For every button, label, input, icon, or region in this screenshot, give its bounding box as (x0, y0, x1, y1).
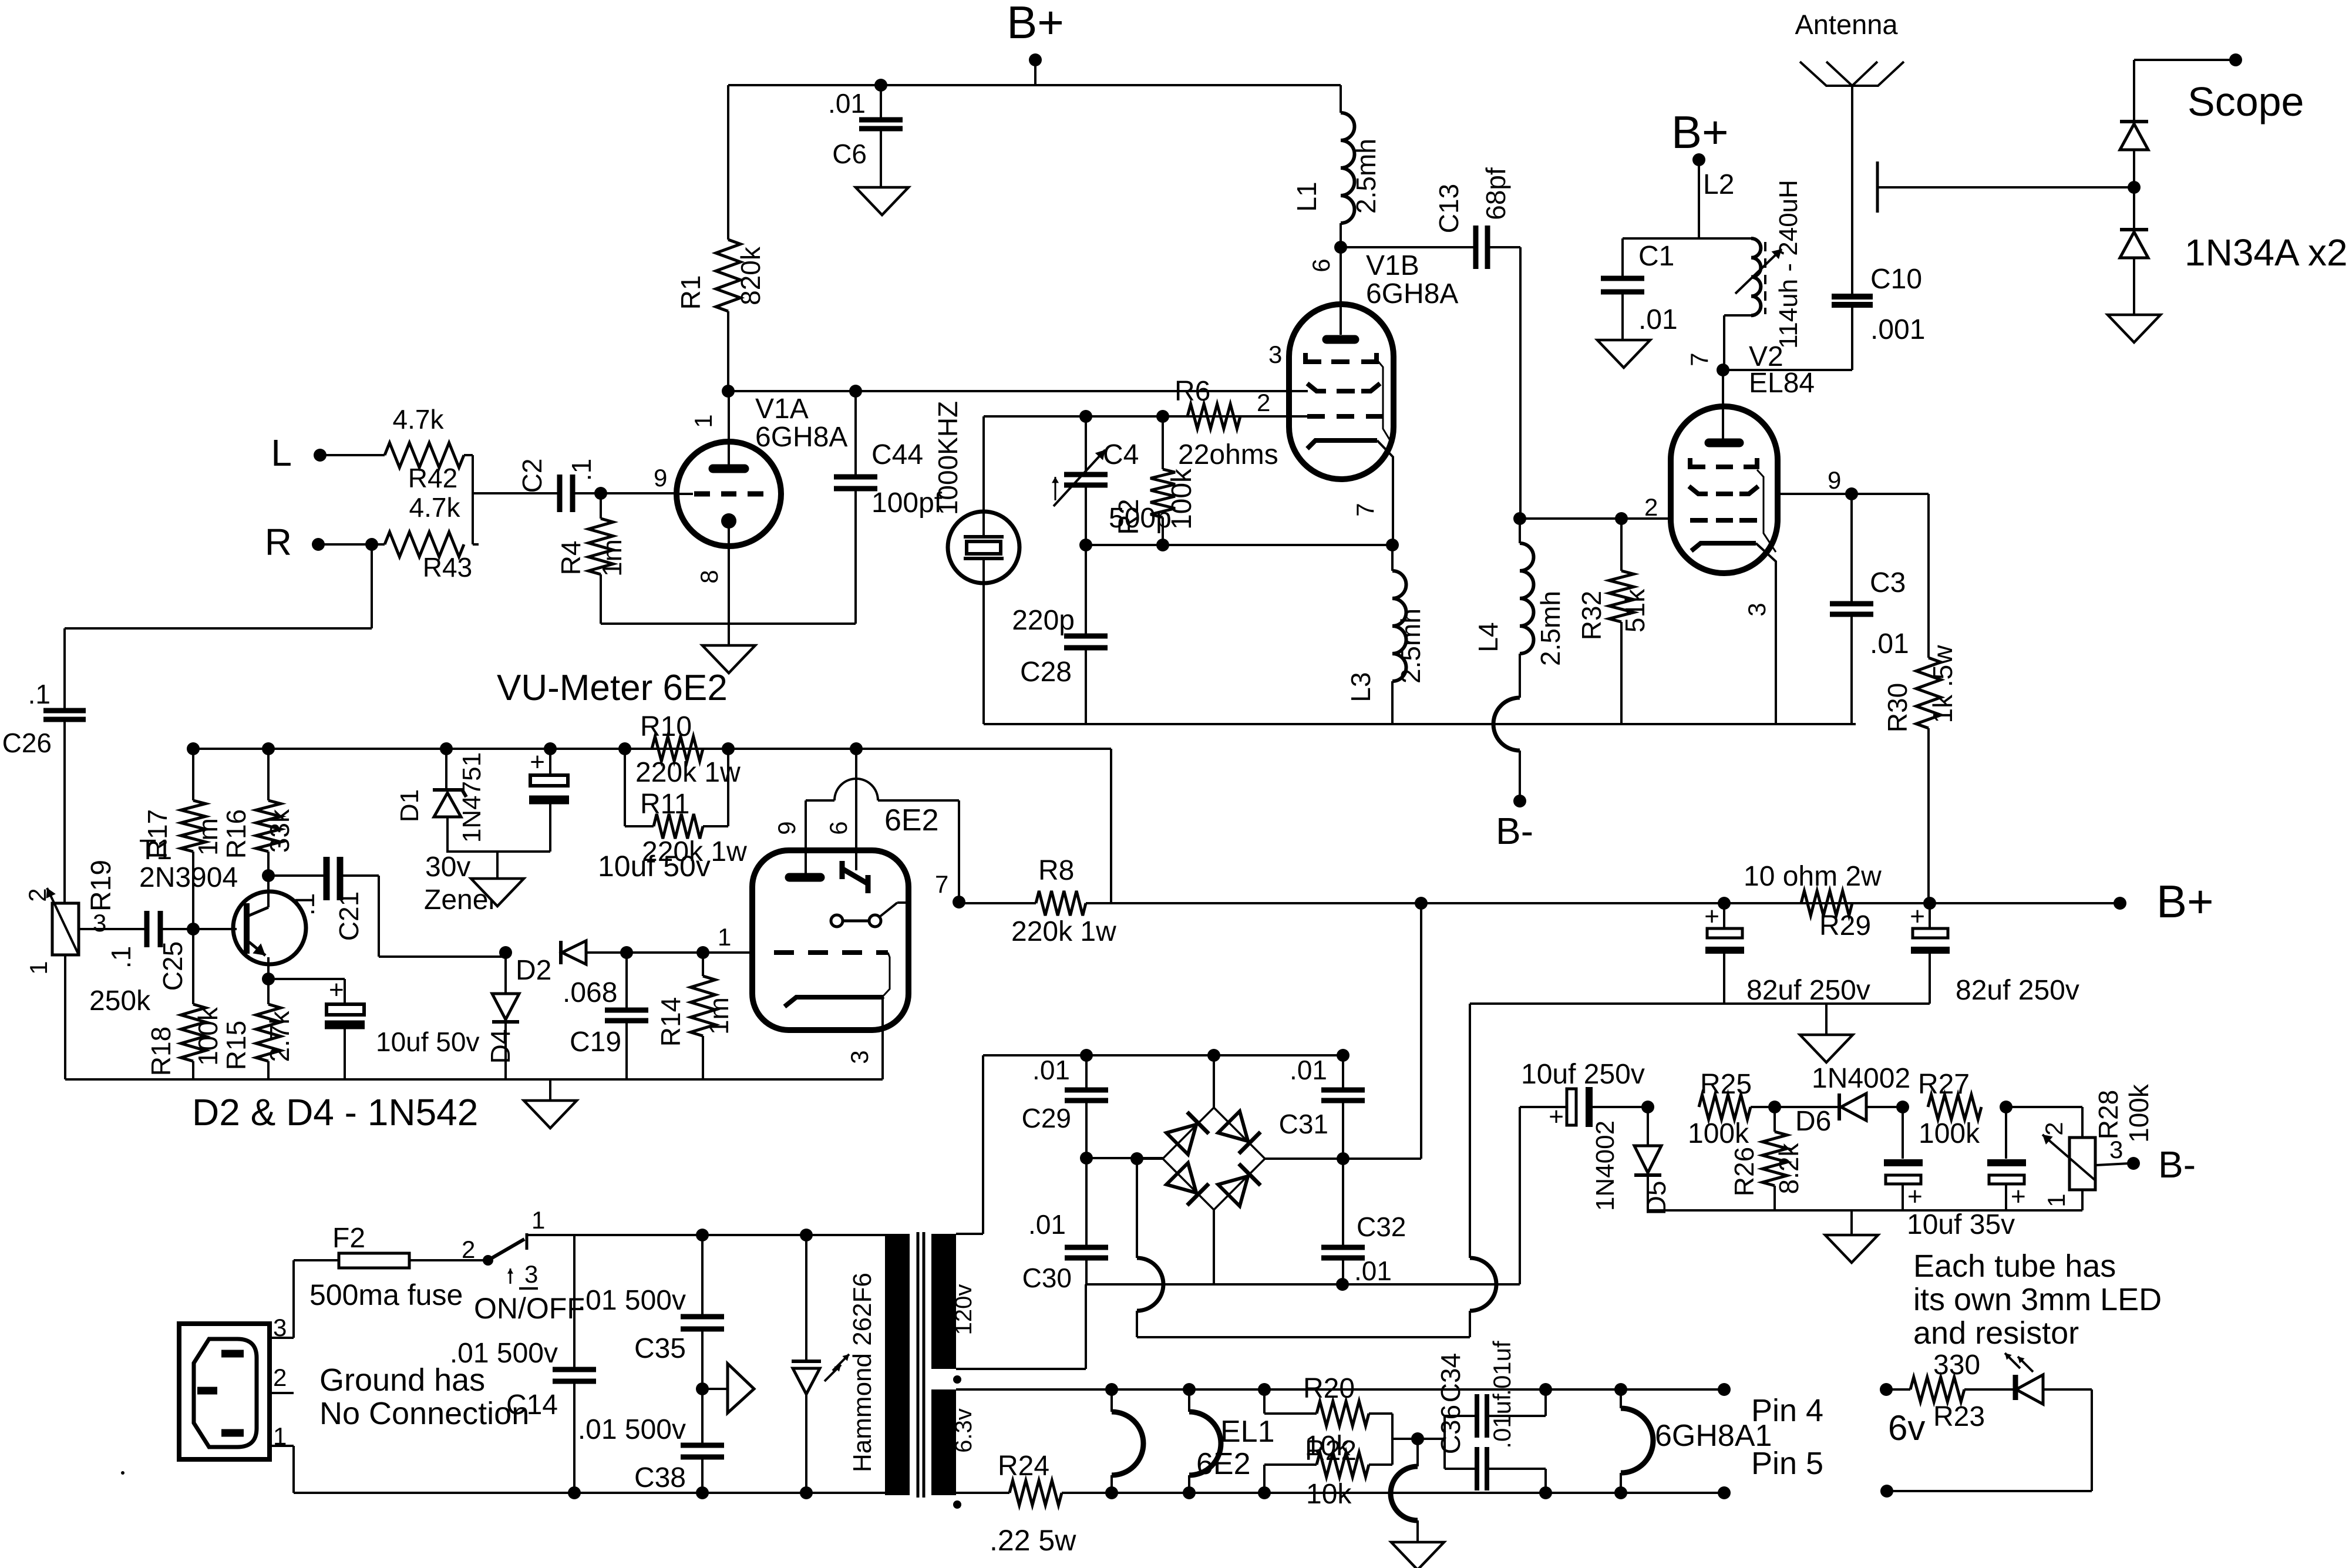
svg-text:4.7k: 4.7k (409, 492, 461, 523)
svg-text:9: 9 (773, 821, 800, 835)
wire C25 to base (160, 928, 237, 930)
diode LED2 3mm (1964, 1353, 2092, 1404)
svg-text:B+: B+ (2156, 876, 2214, 927)
wire R19 wiper (79, 928, 147, 930)
svg-text:2.5mh: 2.5mh (1535, 591, 1566, 666)
svg-text:3: 3 (1743, 603, 1771, 616)
capacitor C31 .01 (1279, 1055, 1365, 1159)
svg-text:1N4751: 1N4751 (457, 752, 486, 843)
capacitor C44 100pf (834, 391, 943, 624)
capacitor C26 .1 (2, 679, 86, 903)
diode D8 1N34A (lower) (2120, 187, 2348, 315)
svg-text:C1: C1 (1638, 241, 1674, 272)
svg-text:120v: 120v (951, 1284, 977, 1335)
svg-text:R18: R18 (146, 1027, 176, 1076)
svg-text:L: L (271, 432, 292, 474)
svg-text:500ma fuse: 500ma fuse (309, 1278, 463, 1311)
svg-text:10uf 35v: 10uf 35v (1907, 1209, 2015, 1240)
node C31/C32 mid (1337, 1152, 1350, 1165)
svg-text:R24: R24 (998, 1451, 1049, 1482)
node LED1 top (800, 1229, 813, 1241)
svg-text:8: 8 (695, 570, 723, 583)
node R2 bottom (1156, 539, 1169, 551)
transistor Q1 2N3904 (233, 876, 306, 979)
node C14 bottom (568, 1486, 581, 1499)
svg-text:R30: R30 (1882, 683, 1913, 732)
ground (B+ filter) (1800, 1004, 1853, 1062)
capacitor C6 .01 (828, 85, 903, 187)
wire inlet pin1 (270, 1422, 574, 1493)
node C35/C38 mid chassis arrow (696, 1364, 754, 1413)
node 6E2 heater top (1105, 1383, 1118, 1396)
svg-text:6E2: 6E2 (1196, 1447, 1251, 1481)
svg-text:2.5mh: 2.5mh (1351, 139, 1381, 214)
resistor R23 330 (1886, 1350, 1985, 1432)
svg-text:22ohms: 22ohms (1178, 439, 1278, 470)
svg-text:R29: R29 (1819, 910, 1871, 941)
capacitor C38 .01 500v (578, 1389, 724, 1493)
wire VU bottom bus (65, 1078, 883, 1081)
svg-text:R20: R20 (1303, 1373, 1355, 1404)
svg-text:EL84: EL84 (1749, 368, 1815, 399)
svg-text:B+: B+ (1671, 106, 1729, 158)
svg-text:V1B: V1B (1366, 250, 1419, 281)
svg-text:.01 500v: .01 500v (450, 1338, 558, 1369)
svg-text:R1: R1 (675, 275, 706, 310)
wire switch to transformer (572, 1234, 885, 1236)
svg-text:9: 9 (654, 464, 667, 492)
node heater rail ends (1718, 1383, 1731, 1499)
node input L (271, 432, 385, 474)
diode D2 1N542 (516, 941, 627, 986)
svg-text:C25: C25 (157, 941, 188, 991)
node V1B pin7 junction (1386, 539, 1399, 551)
node EL1 heater top (1183, 1383, 1196, 1396)
svg-text:C38: C38 (634, 1462, 686, 1493)
resistor R22 10k (1264, 1431, 1392, 1510)
resistor R6 22ohms (1174, 376, 1308, 470)
node L1/C13 junction (1334, 241, 1347, 254)
capacitor C43 10uf 35v (left) (1884, 1107, 1923, 1211)
svg-text:10k: 10k (1306, 1479, 1352, 1510)
node B+ terminal (right) (2114, 876, 2214, 927)
wire 120v top to AC1 (956, 1055, 983, 1234)
svg-text:R6: R6 (1174, 376, 1210, 407)
inductor L3 2.5mh (1345, 545, 1426, 724)
node 6v terminal bottom (1880, 1485, 1893, 1498)
ground (zener) (471, 852, 524, 906)
node R14 top (696, 946, 709, 959)
svg-text:B-: B- (2158, 1143, 2196, 1186)
svg-text:7: 7 (935, 870, 948, 898)
svg-text:R: R (265, 521, 292, 563)
wire L1 to C13 (1341, 246, 1476, 248)
svg-text:7: 7 (1685, 352, 1713, 366)
diode LED1 power indicator (792, 1235, 849, 1493)
svg-text:Pin 4: Pin 4 (1751, 1393, 1823, 1428)
wire primary bottom (294, 1492, 885, 1494)
svg-text:7: 7 (1351, 503, 1379, 516)
wire VU top bus (193, 749, 1111, 903)
svg-text:82uf 250v: 82uf 250v (1956, 975, 2079, 1006)
wire 6.3v top rail (956, 1388, 1724, 1391)
svg-text:1000KHZ: 1000KHZ (933, 401, 963, 515)
label D2 D4 1N542 (192, 1091, 478, 1133)
node D2/D4 junction (499, 946, 512, 959)
label each tube note (1913, 1249, 2162, 1351)
svg-text:+: + (530, 748, 545, 776)
svg-text:+: + (2011, 1182, 2026, 1211)
svg-text:C2: C2 (517, 459, 547, 493)
svg-text:.1: .1 (106, 946, 136, 968)
node C35 top (696, 1229, 709, 1241)
diode D6 1N4002 (1775, 1063, 1910, 1137)
wire inlet pin3 to fuse (270, 1260, 339, 1341)
svg-text:820k: 820k (735, 246, 766, 305)
svg-text:30v: 30v (425, 852, 470, 883)
svg-text:C28: C28 (1020, 657, 1072, 688)
capacitor C2 .1 (517, 459, 597, 512)
svg-text:.001: .001 (1870, 314, 1925, 345)
svg-text:.01 500v: .01 500v (578, 1285, 686, 1316)
node B+ (oscillator) (1671, 106, 1729, 238)
wire C13 to L4 top (1488, 247, 1520, 519)
resistor R2 100k (1150, 416, 1197, 545)
capacitor C35 .01 500v (578, 1235, 724, 1389)
node D5 top (1641, 1101, 1654, 1113)
label 10uf 35v (1907, 1209, 2015, 1240)
svg-text:C19: C19 (570, 1027, 621, 1058)
crystal Y1 1000KHZ (933, 401, 1019, 724)
svg-text:6: 6 (824, 821, 852, 835)
svg-text:1: 1 (25, 961, 52, 974)
svg-text:C29: C29 (1022, 1103, 1071, 1133)
antenna (1795, 9, 1904, 294)
svg-text:4.7k: 4.7k (393, 404, 445, 435)
resistor R27 100k (1918, 1069, 1981, 1149)
node 6v terminal top (1880, 1383, 1925, 1448)
svg-text:D2: D2 (516, 955, 551, 986)
capacitor C28 220p (1012, 545, 1108, 724)
capacitor C29 .01 (1022, 1055, 1108, 1158)
svg-text:R23: R23 (1933, 1401, 1985, 1432)
capacitor C3 .01 (1830, 494, 1909, 724)
svg-text:.01: .01 (828, 88, 866, 119)
inductor L2 114uh-240uH variable (1735, 180, 1803, 349)
ground (below C1) (1597, 340, 1650, 368)
svg-text:6E2: 6E2 (884, 803, 939, 837)
svg-text:R22: R22 (1305, 1435, 1357, 1466)
ground (below V1A pin 8) (702, 624, 755, 673)
svg-text:6.3v: 6.3v (951, 1408, 977, 1453)
svg-text:C36: C36 (1435, 1405, 1466, 1454)
svg-text:R10: R10 (640, 711, 692, 742)
wire L2 bottom to V2 (1724, 315, 1751, 370)
svg-text:1N4002: 1N4002 (1812, 1063, 1910, 1094)
svg-text:D1: D1 (395, 789, 424, 822)
stray dot (121, 1471, 124, 1475)
capacitor C4 500p variable (1052, 416, 1172, 545)
svg-text:C44: C44 (871, 439, 923, 470)
label 30v zener (424, 852, 497, 916)
svg-text:R15: R15 (221, 1021, 251, 1070)
diode D1 1N4751 zener (395, 749, 486, 852)
svg-text:1: 1 (689, 414, 717, 428)
svg-text:R28: R28 (2093, 1090, 2123, 1139)
svg-text:8.2k: 8.2k (1773, 1143, 1804, 1194)
svg-text:R42: R42 (408, 463, 457, 493)
svg-text:33k: 33k (264, 809, 295, 853)
wire input join (464, 455, 560, 544)
resistor R24 .22 5w (990, 1451, 1076, 1557)
svg-text:D6: D6 (1795, 1106, 1831, 1137)
svg-text:R25: R25 (1700, 1069, 1752, 1100)
node C44 tap (849, 385, 862, 398)
svg-text:R27: R27 (1918, 1069, 1970, 1100)
wire main ground bus (1470, 1002, 1930, 1005)
wire LED loop (1887, 1389, 2092, 1491)
svg-text:100k: 100k (1919, 1118, 1980, 1149)
node R2/R6 top (1156, 410, 1169, 423)
svg-text:R11: R11 (640, 789, 690, 820)
capacitor C21 .1 (268, 857, 506, 957)
transformer T2 Hammond 262F6 (848, 1232, 977, 1509)
resistor R10 220k 1w (635, 711, 741, 788)
svg-text:.01: .01 (1870, 628, 1909, 659)
resistor R30 1k .5w (1882, 494, 1958, 903)
svg-text:L2: L2 (1703, 169, 1734, 200)
capacitor C25 .1 (106, 911, 188, 991)
node R10 left (618, 742, 631, 755)
svg-text:68pf: 68pf (1480, 167, 1511, 220)
svg-text:R16: R16 (221, 809, 251, 859)
svg-text:C3: C3 (1870, 567, 1906, 598)
svg-text:C30: C30 (1022, 1263, 1072, 1293)
node C3 tap (1778, 487, 1929, 500)
node C38 bottom (696, 1486, 709, 1499)
resistor R25 100k (1688, 1069, 1775, 1149)
svg-text:C26: C26 (2, 728, 52, 758)
capacitor C42 10uf 250v (1520, 1059, 1648, 1131)
svg-text:B-: B- (1496, 810, 1533, 852)
potentiometer R19 250k (23, 860, 151, 1079)
node heater mid junction (1411, 1432, 1424, 1445)
capacitor C34 .01uf (1435, 1341, 1546, 1439)
svg-text:.01uf: .01uf (1488, 1394, 1516, 1449)
svg-text:1k .5w: 1k .5w (1927, 645, 1958, 724)
svg-text:250k: 250k (89, 985, 151, 1017)
svg-text:EL1: EL1 (1220, 1415, 1275, 1449)
svg-text:2.7k: 2.7k (264, 1011, 295, 1062)
wire 6.3v bottom rail (956, 1492, 1724, 1494)
svg-text:Each tube has: Each tube has (1913, 1249, 2116, 1284)
svg-text:R43: R43 (423, 552, 472, 583)
wire L4 hop over bus (1493, 698, 1520, 751)
resistor R16 33k (221, 749, 295, 876)
node 6GH8A heater top (1614, 1383, 1627, 1396)
svg-text:330: 330 (1933, 1350, 1980, 1381)
potentiometer R28 100k (2006, 1084, 2154, 1210)
svg-text:2: 2 (2040, 1122, 2068, 1135)
svg-text:.01uf: .01uf (1488, 1341, 1516, 1396)
svg-text:+: + (1907, 1182, 1923, 1211)
capacitor C13 68pf (1433, 167, 1511, 269)
capacitor C30 .01 (1022, 1158, 1108, 1293)
wire B+ top bus (728, 84, 1341, 86)
wire B+ rail (1086, 902, 2120, 904)
svg-text:Pin 5: Pin 5 (1751, 1446, 1823, 1481)
label Pin4 (1751, 1393, 1823, 1428)
resistor R11 220k 1w (625, 749, 747, 867)
node base junction (187, 923, 200, 936)
svg-text:.1: .1 (566, 459, 597, 481)
svg-text:100pf: 100pf (871, 487, 943, 519)
node C29/C30 mid (1080, 1152, 1163, 1165)
svg-text:VU-Meter 6E2: VU-Meter 6E2 (497, 668, 728, 708)
svg-text:ON/OFF: ON/OFF (474, 1292, 585, 1325)
wire oscillator cathode row (1086, 544, 1392, 546)
svg-text:B+: B+ (1007, 0, 1064, 48)
svg-text:3: 3 (93, 909, 106, 937)
label .068 (563, 977, 617, 1008)
node D1 top (440, 742, 453, 755)
svg-text:.1: .1 (28, 679, 51, 709)
node R17 top (187, 742, 200, 755)
svg-text:1m: 1m (704, 997, 734, 1035)
wire AC1 top (983, 1054, 1343, 1056)
switch SW1 ON/OFF (409, 1206, 585, 1325)
svg-text:+: + (1549, 1102, 1564, 1131)
svg-text:6: 6 (1307, 258, 1335, 272)
node V2 top junction (1717, 364, 1729, 376)
node C34 rail tap (1539, 1383, 1552, 1396)
svg-text:+: + (1704, 902, 1719, 931)
svg-text:3: 3 (1268, 341, 1282, 368)
svg-text:82uf 250v: 82uf 250v (1746, 975, 1870, 1006)
svg-text:1m: 1m (193, 818, 223, 856)
resistor R43 4.7k (372, 492, 472, 583)
ground (bias) (1825, 1210, 1878, 1263)
node C36 rail tap (1539, 1486, 1552, 1499)
heater 6E2 (1112, 1389, 1251, 1493)
wire bridge minus (1137, 1158, 1163, 1160)
svg-text:6v: 6v (1888, 1408, 1925, 1448)
wire V1B out to V2 (1520, 517, 1672, 520)
svg-text:6GH8A: 6GH8A (1366, 278, 1458, 309)
svg-text:220k 1w: 220k 1w (1011, 916, 1116, 947)
svg-text:.01: .01 (1290, 1055, 1327, 1085)
svg-text:1: 1 (531, 1206, 545, 1234)
wire AC2 row (1086, 1283, 1520, 1286)
svg-text:C6: C6 (832, 139, 867, 169)
inductor L4 2.5mh (1473, 519, 1566, 698)
capacitor C41 82uf 250v (right) (1910, 902, 2079, 1006)
svg-text:2: 2 (1644, 493, 1658, 521)
wire C1/L2 top (1623, 169, 1751, 238)
capacitor C32 .01 (1321, 1159, 1406, 1286)
tube U1 6E2 magic eye (718, 749, 959, 1079)
svg-text:.22 5w: .22 5w (990, 1524, 1076, 1557)
svg-text:+: + (329, 975, 344, 1004)
node C19 top (620, 946, 633, 959)
wire V1A grid row (pin1 bus to V1B) (728, 390, 1308, 392)
capacitor 10uf 50v (emitter) (268, 975, 479, 1079)
heater EL1 (1189, 1389, 1275, 1493)
tube V1A 6GH8A triode (654, 391, 847, 624)
svg-text:1: 1 (2042, 1193, 2070, 1207)
svg-text:R26: R26 (1729, 1147, 1759, 1196)
heater 6GH8A1 (1621, 1389, 1772, 1493)
svg-text:C32: C32 (1357, 1212, 1406, 1242)
svg-text:C4: C4 (1103, 439, 1139, 470)
resistor R32 51k (1576, 519, 1650, 724)
resistor R26 8.2k (1729, 1107, 1804, 1210)
capacitor 10uf 50v (zener) (529, 748, 711, 883)
svg-text:10uf 50v: 10uf 50v (376, 1027, 479, 1057)
node 6GH8A heater bottom (1614, 1486, 1627, 1499)
svg-text:1: 1 (718, 923, 731, 951)
diode D4 1N542 (485, 953, 519, 1079)
resistor R18 100k (146, 929, 223, 1079)
node 6E2 heater bottom (1105, 1486, 1118, 1499)
svg-text:L3: L3 (1345, 672, 1376, 702)
svg-text:Hammond 262F6: Hammond 262F6 (848, 1273, 877, 1472)
resistor R4 1m (556, 493, 627, 624)
svg-text:1N34A x2: 1N34A x2 (2185, 231, 2348, 274)
resistor R15 2.7k (221, 979, 295, 1079)
node input R (265, 521, 372, 563)
wire oscillator grid row (984, 415, 1308, 418)
node R32 top (1615, 512, 1628, 525)
wire D2 row (627, 951, 752, 954)
wire bias bottom bus (1648, 1209, 2082, 1212)
svg-text:2: 2 (1257, 389, 1270, 416)
node C44b top (2000, 1101, 2013, 1113)
svg-text:R2: R2 (1113, 499, 1145, 534)
svg-text:3: 3 (846, 1050, 873, 1064)
capacitor C10 .001 (1832, 264, 1925, 370)
svg-text:L1: L1 (1291, 181, 1322, 211)
node left 82uf tap (1718, 897, 1731, 910)
svg-text:10uf 250v: 10uf 250v (1521, 1059, 1645, 1090)
node bridge minus (1130, 1152, 1143, 1165)
svg-text:.01: .01 (1354, 1256, 1392, 1286)
svg-text:C13: C13 (1433, 184, 1464, 233)
svg-text:10 ohm 2w: 10 ohm 2w (1744, 861, 1882, 892)
capacitor C1 .01 (1601, 238, 1678, 340)
svg-text:C35: C35 (634, 1333, 686, 1364)
wire mid to caps (1392, 1438, 1445, 1440)
svg-text:100k: 100k (2123, 1084, 2154, 1143)
capacitor C40 82uf 250v (left) (1704, 902, 1870, 1006)
svg-text:D4: D4 (485, 1029, 516, 1064)
resistor R1 820k (675, 85, 766, 391)
svg-text:C21: C21 (334, 891, 364, 941)
wire C2 to grid (573, 492, 677, 494)
svg-text:R8: R8 (1038, 855, 1074, 886)
svg-text:.068: .068 (563, 977, 617, 1008)
svg-text:+: + (1910, 902, 1925, 931)
svg-text:.01: .01 (1028, 1209, 1066, 1240)
svg-text:2N3904: 2N3904 (139, 862, 238, 893)
node R22 tap (1258, 1486, 1271, 1499)
svg-text:3: 3 (524, 1260, 538, 1288)
bridge rectifier BR1 (1163, 1055, 1265, 1284)
resistor R29 10 ohm 2w (1744, 861, 1882, 941)
ground (heater mid) (1391, 1439, 1444, 1568)
node C4 top (1079, 410, 1092, 423)
wire AC2 to 120v bottom (956, 1284, 1086, 1369)
